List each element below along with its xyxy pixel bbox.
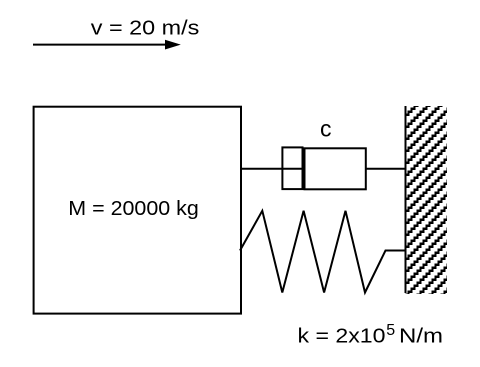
damper rod left (wire) [241, 168, 303, 170]
svg-text:M = 20000 kg: M = 20000 kg [68, 198, 199, 220]
mass M box [34, 107, 241, 314]
svg-text:c: c [320, 116, 332, 142]
damper piston box [282, 147, 302, 189]
wall face line [405, 106, 407, 293]
svg-text:v = 20 m/s: v = 20 m/s [91, 18, 199, 40]
svg-text:N/m: N/m [399, 326, 443, 348]
wall hatching [400, 37, 472, 349]
damper rod right (wire) [366, 168, 406, 170]
damper cylinder box [305, 148, 366, 189]
svg-text:k = 2x10: k = 2x10 [298, 326, 386, 348]
spring k [240, 211, 406, 293]
svg-text:5: 5 [386, 322, 395, 339]
label k = 2x10^5 N/m [298, 322, 444, 348]
velocity arrow [33, 40, 181, 50]
